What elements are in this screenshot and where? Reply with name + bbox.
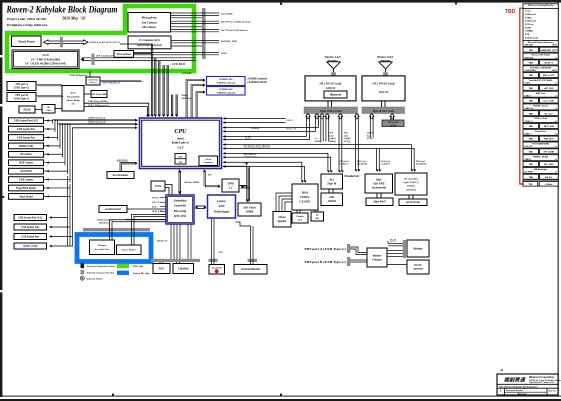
svg-text:HDMI (USB): HDMI (USB): [18, 145, 33, 148]
svg-text:x1/Wake: x1/Wake: [545, 184, 553, 186]
arrowhead HDA b: [304, 181, 307, 183]
svg-text:TBD: TBD: [528, 151, 533, 153]
svg-text:Thunderbolt: Thunderbolt: [67, 95, 80, 98]
arrowhead into CPU top 6: [171, 115, 174, 117]
svg-text:256GB: 256GB: [327, 200, 336, 203]
arrowhead RGB Camera: [47, 161, 49, 164]
svg-text:LED: LED: [151, 207, 157, 209]
svg-text:2016 May ' 05: 2016 May ' 05: [61, 15, 85, 20]
frame notch left 3: [0, 290, 2, 292]
arrowhead tbt bus B: [146, 115, 149, 117]
svg-text:eSPI: eSPI: [244, 163, 249, 165]
svg-text:TBD: TBD: [505, 9, 516, 15]
svg-text:ThinkEngine: ThinkEngine: [214, 209, 231, 213]
wire memory channel 3: [196, 92, 204, 119]
frame tick top right: [455, 3, 457, 5]
wireless WAN antenna symbol: [379, 62, 393, 76]
arrowhead tbt bus A: [147, 115, 150, 117]
svg-text:SPI Flash 1MB: SPI Flash 1MB: [92, 94, 107, 96]
arrow into type-A slot 3: [320, 114, 325, 119]
svg-text:Sensors (P) 2.0(A): Sensors (P) 2.0(A): [532, 54, 550, 57]
svg-text:TBD: TBD: [528, 177, 533, 179]
wire SB_IF to battery: [388, 241, 403, 246]
svg-text:PS/2(A): PS/2(A): [152, 197, 159, 200]
WWAN M.2 card: [362, 76, 405, 101]
arrowhead USB System Port: [47, 128, 49, 131]
wire HDMI (USB) to trunk: [44, 145, 61, 147]
wire RGB Camera to trunk: [44, 162, 66, 164]
wire type-A slot down to M.2 type-M: [339, 114, 342, 171]
svg-text:RTS5234: RTS5234: [406, 188, 416, 191]
peripheral lower USB System Port #2: [14, 224, 47, 230]
svg-text:TBD: TBD: [528, 126, 533, 128]
svg-text:Touch Panel: Touch Panel: [18, 39, 35, 43]
svg-text:PCIe Gen3: PCIe Gen3: [357, 161, 366, 163]
connector tick on eDP wire: [92, 54, 95, 65]
svg-text:Controller: Controller: [174, 204, 187, 208]
keyboard backlit: [234, 265, 267, 275]
svg-text:TBT3_A/B: TBT3_A/B: [543, 125, 554, 128]
wire i2c bus1: [171, 21, 220, 23]
table section CPU KBL-U 28W/15W: [523, 66, 558, 72]
arrowhead memory channel 3: [203, 90, 206, 93]
wire WLAN to typeA bar: [328, 101, 332, 107]
svg-text:E-Compass/ALS: E-Compass/ALS: [138, 38, 160, 42]
svg-text:Alpine Ridge: Alpine Ridge: [65, 99, 80, 102]
svg-text:IR Camera: IR Camera: [19, 153, 32, 156]
wire type-B arrow tail down: [370, 114, 373, 137]
wire bus4 down to GbE PHY: [377, 148, 380, 170]
svg-text:WDDR3L onboard: WDDR3L onboard: [216, 82, 235, 85]
arrowhead bus USB3.1 to WLAN slot a: [223, 117, 225, 120]
arrowhead lower USB System Port: [50, 235, 52, 238]
SD controller RTS5234: [395, 173, 427, 195]
legend BTO chip swatch: [117, 264, 129, 268]
arrowhead eSPI up: [178, 170, 181, 173]
arrowhead bus4 into SD a: [411, 170, 414, 172]
svg-text:PCIe0: PCIe0: [245, 137, 252, 139]
svg-text:BTO chip: BTO chip: [132, 265, 144, 268]
svg-text:eDP_FHD: eDP_FHD: [544, 88, 554, 90]
svg-text:Generator: Generator: [203, 161, 213, 164]
svg-text:USB3/2Gbps(TBT4C): USB3/2Gbps(TBT4C): [88, 100, 108, 103]
wire TBT A to charger: [350, 247, 367, 255]
svg-text:TBD: TBD: [528, 139, 533, 141]
svg-text:Type-B M.2 Card: Type-B M.2 Card: [372, 109, 394, 113]
wire CPU to EC eSPI: [179, 170, 181, 196]
arrowhead M2 typeM b: [341, 171, 344, 173]
svg-text:Touch&eDP LCD PANEL: Touch&eDP LCD PANEL: [529, 79, 554, 82]
svg-text:Internal Connector/Socket: Internal Connector/Socket: [86, 272, 115, 275]
trackpoint connector bar: [209, 259, 218, 262]
combo jack: [292, 213, 308, 223]
svg-text:DC/DC: DC/DC: [413, 264, 422, 267]
svg-text:TYPE-C Dock: TYPE-C Dock: [534, 118, 548, 120]
svg-text:Lenovo: Lenovo: [216, 199, 226, 203]
svg-text:I2C/INT(A): I2C/INT(A): [116, 159, 128, 162]
svg-text:MEC1653: MEC1653: [173, 214, 187, 218]
arrowhead into CPU top 2: [154, 115, 157, 117]
svg-text:Cam_FHD: Cam_FHD: [543, 101, 554, 103]
arrow into type-A slot 6: [355, 114, 360, 119]
svg-text:7.WWAN: 7.WWAN: [525, 30, 533, 33]
peripheral USB System Port #2: [9, 126, 44, 132]
arrow into type-B slot 2: [390, 114, 395, 119]
svg-text:PCH Lane Out Swap/PwrCfg: PCH Lane Out Swap/PwrCfg: [528, 4, 554, 7]
svg-text:TBT port A (USB Type-C): TBT port A (USB Type-C): [304, 247, 346, 251]
legend BU chip swatch: [117, 271, 129, 275]
svg-text:External Connector/Socket: External Connector/Socket: [86, 265, 115, 268]
svg-text:x1: x1: [555, 57, 557, 59]
PD controller: [42, 105, 55, 114]
bus USB3.1 to WLAN slot: [223, 118, 286, 122]
svg-text:TBD: TBD: [528, 75, 533, 77]
svg-text:CX11871: CX11871: [299, 200, 311, 204]
arrowhead IR Camera: [47, 153, 49, 156]
svg-text:Wistron Corporation: Wistron Corporation: [529, 375, 555, 379]
svg-text:CPU15W28W: CPU15W28W: [525, 70, 536, 72]
battery connector bar: [403, 240, 406, 258]
svg-text:IR_Cam: IR_Cam: [545, 113, 553, 115]
table section Sensors (P) 2.0(A): [523, 53, 558, 59]
arrowhead SATA into M2 a: [327, 171, 330, 173]
SPI flash 16MB: [238, 203, 261, 216]
svg-text:3042-S3: 3042-S3: [378, 91, 389, 94]
page frame left bar: [0, 0, 2, 397]
svg-text:TBD: TBD: [528, 88, 533, 90]
trackpoint with red cap: [209, 265, 225, 275]
svg-text:TBD: TBD: [528, 164, 533, 166]
wire touch panel to bundle: [120, 44, 153, 54]
table section FHD/IR camera: [523, 104, 558, 110]
wire trunk verticals left column: [53, 120, 73, 247]
svg-text:(x2)Opt: (x2)Opt: [343, 137, 350, 140]
svg-text:2430-S3: 2430-S3: [325, 87, 336, 90]
title block size/doc/rev row: [500, 388, 557, 395]
wire branch to TPM: [241, 186, 250, 189]
wire ALS/EDID to trunk: [44, 170, 68, 172]
LPDDR3 module 2: [207, 87, 246, 96]
svg-text:x1: x1: [555, 134, 557, 136]
arrowhead thunderbolt a: [355, 170, 358, 172]
peripheral HDMI (USB) #4: [9, 143, 44, 149]
svg-text:TBD: TBD: [528, 101, 533, 103]
svg-text:converter: converter: [413, 268, 424, 271]
arrowhead GbE b: [378, 170, 381, 172]
wire CPU right to flash riser: [223, 165, 248, 167]
svg-text:2xRTD2142: 2xRTD2142: [87, 78, 98, 81]
CPU Intel KabyLake-U: [140, 118, 222, 169]
peripheral lower USB System Port #3: [14, 234, 47, 240]
svg-text:(x1)(SSD B): (x1)(SSD B): [357, 163, 368, 166]
page frame right border: [558, 2, 559, 396]
table section Touch&amp;eDP LCD PANEL: [523, 79, 558, 85]
svg-text:CODEC: CODEC: [300, 195, 311, 199]
accelerometer 2: [99, 206, 127, 213]
arrowhead bus PCIe0 to WLAN b: [223, 138, 225, 141]
arrowhead bus PCI Express lanes 3and4 a: [223, 143, 225, 146]
wire type-A arrow4 tail down: [321, 114, 323, 141]
svg-text:Taipei Hsien 221, Taiwan, R.O.: Taipei Hsien 221, Taiwan, R.O.C.: [529, 382, 555, 384]
arrowhead bus USB2.0/BT to wireless slots b: [223, 130, 225, 133]
wire USB2 bus4 to CPU: [53, 120, 138, 121]
microSD slot: [399, 199, 427, 206]
svg-text:PCIe Gen3: PCIe Gen3: [340, 161, 349, 163]
svg-text:SSD: SSD: [329, 196, 334, 199]
svg-text:Keyboard/Backlit: Keyboard/Backlit: [240, 268, 260, 271]
svg-text:XDAE: XDAE: [22, 108, 31, 112]
svg-text:3.SATA: 3.SATA: [525, 16, 532, 19]
svg-text:4.USB port2: 4.USB port2: [525, 20, 536, 23]
wire codec to combo jack: [297, 210, 300, 213]
M.2 Type-M slot: [321, 174, 343, 189]
arrowhead bus USB2.0/BT to wireless slots a: [223, 126, 225, 129]
TBD red bracket: [520, 8, 524, 184]
svg-text:(upto USB3.1): (upto USB3.1): [404, 181, 419, 184]
wire PD to controller: [55, 108, 62, 110]
svg-text:(USB Type-C): (USB Type-C): [14, 98, 30, 101]
svg-text:CPU: CPU: [175, 129, 188, 135]
arrowhead into SPI flash a: [246, 200, 249, 202]
CPU eDP cell divider: [175, 156, 186, 164]
svg-text:SMB_BAT: SMB_BAT: [525, 44, 534, 47]
arrowhead M2 typeM a: [338, 171, 341, 173]
clickpad: [173, 264, 194, 274]
svg-text:USB 2.0 or I2C (TP to EC??): USB 2.0 or I2C (TP to EC??): [90, 41, 120, 44]
wire touch panel USB arrow: [44, 40, 89, 45]
HDA codec CX11871: [292, 184, 318, 210]
svg-text:TrackPoint: TrackPoint: [212, 267, 223, 270]
legend internal switch marker: [80, 276, 84, 280]
bus SATA to M.2 type-M: [223, 153, 331, 171]
svg-text:Thermistor: Thermistor: [99, 222, 109, 225]
arrowhead into CPU top 5: [166, 115, 169, 117]
svg-text:Accelerometer: Accelerometer: [112, 174, 130, 177]
svg-text:Charger: Charger: [372, 258, 383, 261]
arrowhead Touch Board: [47, 195, 49, 198]
arrowhead into CPU top 1: [151, 115, 154, 117]
arrowhead branch TPM: [241, 185, 243, 188]
wire EC to ASIC: [196, 206, 206, 208]
svg-text:USB System Port: USB System Port: [17, 136, 35, 139]
wire charger to battery: [387, 251, 403, 257]
wire SD to microSD: [409, 195, 413, 199]
wire memory channel 1: [186, 80, 204, 119]
svg-text:FAN: FAN: [155, 184, 162, 188]
svg-text:IR Camera: IR Camera: [141, 25, 156, 29]
wire mic extra lines: [171, 18, 203, 46]
bus eSPI/HDA down: [223, 162, 305, 181]
svg-text:2nd Camera: 2nd Camera: [141, 20, 158, 24]
svg-text:1.Intel: 1.Intel: [525, 10, 531, 13]
accelerometer 1: [107, 172, 134, 179]
svg-text:UCM/BT: UCM/BT: [251, 128, 260, 130]
wire typeM to SSD: [329, 189, 333, 193]
wire typeB to RFID: [391, 116, 394, 120]
stereo speaker: [273, 212, 291, 228]
svg-text:TBD: TBD: [528, 63, 533, 65]
svg-text:USB3.0: USB3.0: [525, 159, 531, 161]
svg-text:Intel: Intel: [70, 92, 76, 95]
svg-text:5.PCIe x4: 5.PCIe x4: [525, 23, 534, 26]
svg-text:I2C_I/F: I2C_I/F: [151, 202, 160, 204]
bluetooth module: [324, 91, 347, 98]
arrow into type-B slot 1: [369, 114, 374, 119]
arrowhead bus4 into SD b: [413, 170, 416, 172]
arrowhead USB2 bus6: [135, 126, 137, 129]
peripheral lower USB System Port (A/C) #1: [14, 215, 47, 221]
wire SPI flash branch to TPM: [240, 186, 249, 187]
wire HDMI (USB) lower to trunk: [50, 245, 73, 247]
internal mic: [311, 212, 324, 221]
svg-text:LPDDR3 onboard: LPDDR3 onboard: [247, 78, 268, 81]
wire CPU to TPM: [204, 170, 220, 187]
svg-text:TBT port B (USB Type-C): TBT port B (USB Type-C): [304, 260, 346, 264]
svg-text:USB: USB: [46, 110, 51, 112]
svg-text:x1: x1: [555, 95, 557, 97]
wire thunderbolt bus A: [84, 103, 149, 116]
svg-text:PCIe Gen3: PCIe Gen3: [381, 161, 390, 163]
wire EC left PCH_R_IF: [160, 210, 166, 212]
svg-text:SB_IF: SB_IF: [390, 240, 397, 242]
wire EC down to KB bus: [171, 225, 191, 259]
arrowhead FingerPrint Reader: [47, 187, 49, 190]
svg-text:PCIe Gen3: PCIe Gen3: [416, 161, 425, 163]
svg-text:PCI Express lanes 3&4 (x2): PCI Express lanes 3&4 (x2): [244, 145, 271, 148]
table section TYPE-C Dock: [523, 117, 558, 123]
wire bus6 down to SPI flash: [247, 162, 250, 201]
wire fan to EC 2: [165, 188, 169, 196]
intel GbE PHY jacksonville: [365, 174, 393, 193]
wire i2c bus2: [171, 29, 220, 31]
wire USB System Port lower to trunk: [50, 226, 71, 228]
svg-text:8.PD: 8.PD: [525, 34, 530, 36]
svg-text:Jack: Jack: [298, 219, 304, 222]
wire redriver to bundle: [100, 81, 142, 82]
wire int/rst: [171, 40, 219, 42]
svg-text:KB Backlight: KB Backlight: [534, 168, 547, 171]
wire eDP into LCD: [82, 58, 196, 61]
svg-text:PCH_SPI: PCH_SPI: [525, 146, 533, 148]
svg-text:WWAN BTO: WWAN BTO: [387, 121, 399, 124]
svg-text:x1: x1: [555, 108, 557, 110]
svg-text:Raven-2 Kabylake Block Diagram: Raven-2 Kabylake Block Diagram: [6, 5, 118, 16]
peripheral lower HDMI (USB) #4: [14, 243, 47, 249]
svg-text:Stereo: Stereo: [278, 216, 286, 219]
legend external connector marker: [81, 264, 85, 269]
svg-text:TPD2.0(A): TPD2.0(A): [525, 56, 534, 59]
svg-text:FHD Cam: FHD Cam: [536, 93, 546, 95]
arrow into type-A slot 1: [306, 114, 311, 119]
svg-text:Touch Board: Touch Board: [19, 195, 33, 198]
svg-text:Document Number: Document Number: [506, 389, 523, 392]
svg-text:ALS/EDID: ALS/EDID: [19, 170, 32, 173]
svg-text:16MB: 16MB: [246, 210, 253, 214]
svg-text:ULT: ULT: [177, 146, 184, 150]
peripheral USB Camera #8: [9, 177, 44, 183]
svg-text:USB2.0 bus4 (x3): USB2.0 bus4 (x3): [88, 116, 106, 119]
svg-text:(x1)Boot A: (x1)Boot A: [339, 163, 349, 166]
svg-text:GbE PHY: GbE PHY: [373, 182, 385, 185]
arrowhead lower HDMI (USB): [50, 245, 52, 248]
LPDDR3 module 1: [207, 77, 246, 86]
svg-text:KBL-U GT2: KBL-U GT2: [543, 75, 555, 77]
wire TBT A to controller: [36, 85, 63, 86]
TBT port A: [7, 82, 36, 91]
svg-text:Rev 0.3: Rev 0.3: [548, 391, 556, 393]
sensor bus gray bar: [202, 8, 206, 59]
wire lpss: [134, 52, 220, 54]
svg-text:Jacksonville: Jacksonville: [372, 187, 387, 190]
svg-text:(PCEg): (PCEg): [344, 140, 351, 143]
arrowhead USB Camera: [47, 178, 49, 181]
table section Battery/Charger/Detection: [523, 40, 558, 46]
wire EC to charger pen: [132, 215, 167, 246]
WLAN M.2 card: [305, 76, 356, 101]
arrowhead memory channel 2: [203, 83, 206, 86]
arrowhead bus PCI Express lanes 3and4 b: [223, 147, 225, 150]
svg-text:x1: x1: [555, 83, 557, 85]
fan: [151, 181, 165, 191]
power button: [117, 245, 142, 255]
wire type-A arrow3 tail down: [326, 114, 329, 141]
svg-text:eDP: eDP: [178, 156, 183, 159]
svg-text:7S/7S: 7S/7S: [552, 45, 558, 47]
wire USB System Port to trunk: [44, 136, 58, 138]
title block wistron corporation text: [529, 375, 561, 384]
svg-text:(x1)(GbE): (x1)(GbE): [381, 163, 390, 166]
svg-text:9.SD Expander: 9.SD Expander: [525, 37, 539, 39]
svg-text:bus2: bus2: [367, 135, 371, 137]
svg-text:TBT port B: TBT port B: [15, 94, 28, 97]
svg-text:Title: Raven-2 Kabylake Block: Title: Raven-2 Kabylake Block Diagram: [499, 385, 538, 388]
table section PCH 16MB/32MB: [523, 142, 558, 148]
frame tick top center: [280, 3, 282, 5]
svg-text:I2C I/F bus 2 (IR Sensor): I2C I/F bus 2 (IR Sensor): [220, 29, 248, 32]
svg-text:I2C I/F bus 1 (HID Sensors): I2C I/F bus 1 (HID Sensors): [220, 21, 251, 24]
page frame bottom line: [0, 396, 561, 397]
connector tick on touch panel arrow: [60, 37, 63, 47]
USB3 redriver: [86, 77, 100, 85]
frame notch left 2: [0, 104, 2, 106]
wire bus to NFC: [160, 262, 163, 264]
table section FHD Cam: [523, 91, 558, 97]
arrowhead memory channel 1: [203, 78, 206, 81]
svg-text:RGB Camera: RGB Camera: [19, 162, 34, 165]
arrowhead USB System Port: [47, 136, 49, 139]
svg-text:x2: x2: [555, 121, 557, 123]
svg-text:WWAN / WLAN: WWAN / WLAN: [533, 155, 548, 158]
svg-text:eSPI bus 24MHz: eSPI bus 24MHz: [184, 181, 199, 184]
TBT port B: [7, 93, 36, 102]
page frame top bar: [0, 0, 561, 3]
svg-text:USB 3.1: USB 3.1: [286, 120, 294, 122]
arrowhead lower USB System Port (A/C): [50, 216, 52, 219]
svg-text:M.2_3042: M.2_3042: [544, 163, 555, 166]
embedded controller MEC1653: [166, 195, 194, 224]
svg-text:(4GB/8GB/16GB): (4GB/8GB/16GB): [247, 81, 266, 84]
svg-text:x2: x2: [555, 159, 557, 161]
peripheral USB System Port (A/C) #1: [9, 118, 44, 124]
table section KB Backlight: [523, 167, 558, 173]
svg-text:SensorHub: SensorHub: [221, 12, 233, 15]
svg-text:2nd Pbs: 2nd Pbs: [389, 125, 397, 127]
wire IR Camera to trunk: [44, 153, 63, 155]
svg-text:USB System Port (A/C): USB System Port (A/C): [14, 120, 38, 123]
mini RJ45: [366, 198, 393, 206]
wire FingerPrint Reader to trunk: [44, 187, 71, 189]
wire CPU to SPI flash: [247, 166, 248, 202]
